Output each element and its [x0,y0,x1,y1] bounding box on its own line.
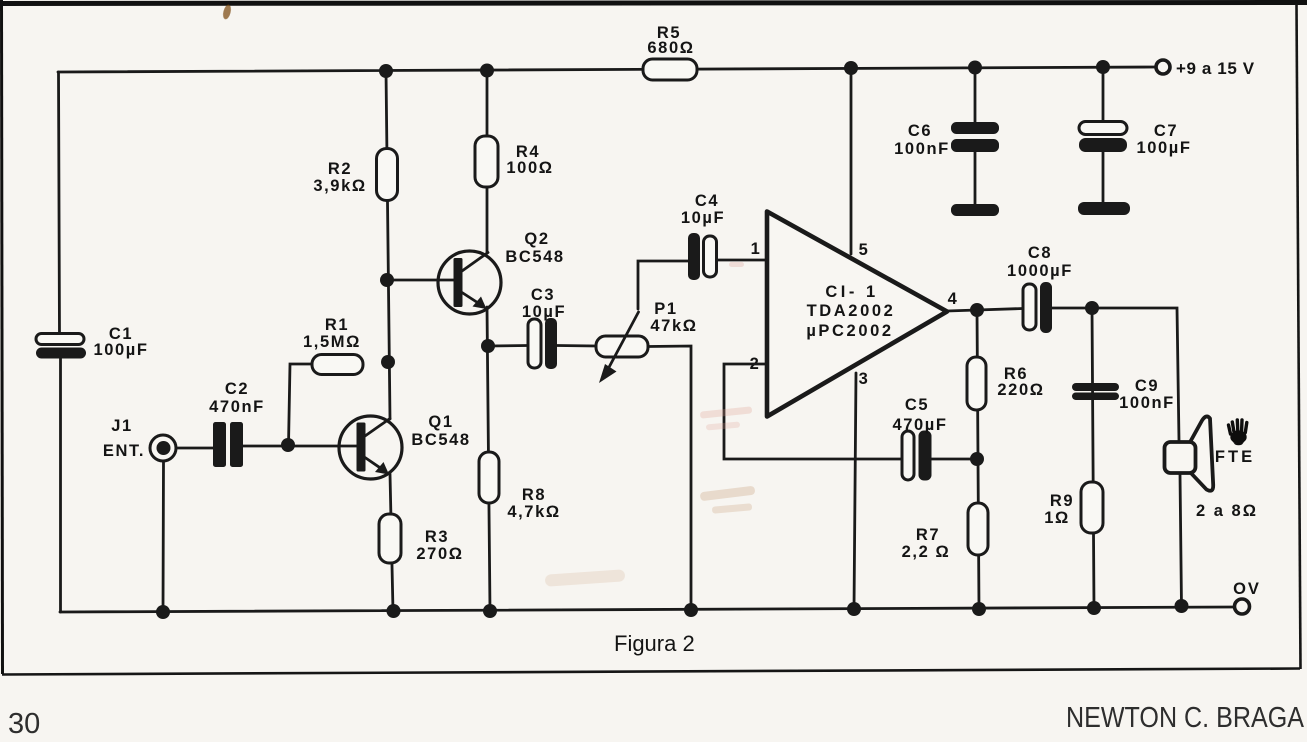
svg-text:30: 30 [8,708,40,740]
resistor R5 [643,24,697,80]
svg-text:ENT.: ENT. [103,442,145,460]
svg-text:C6: C6 [908,122,932,140]
svg-text:680Ω: 680Ω [647,39,694,57]
signature NEWTON C. BRAGA [1066,702,1305,734]
svg-text:C4: C4 [695,192,719,210]
svg-text:100µF: 100µF [1136,139,1191,157]
wire C5 to R6R7 node [932,458,978,461]
svg-text:C9: C9 [1135,377,1159,395]
svg-text:1Ω: 1Ω [1044,509,1070,527]
wire speaker to 0V [1180,474,1182,606]
transistor Q1 BC548 [339,413,471,479]
wire C7 column [1102,67,1105,202]
svg-text:R3: R3 [425,528,449,546]
wire output to speaker [1092,308,1179,441]
wire R4 column [486,71,489,253]
svg-text:3: 3 [859,370,870,388]
wire J1 to C2 [176,447,213,450]
svg-text:CI- 1: CI- 1 [825,283,878,301]
node 0V rail junction at R3 [387,604,401,618]
node 0V rail junction at speaker [1175,599,1189,613]
op-amp CI-1 TDA2002 [767,212,947,417]
capacitor C7 [1079,122,1192,158]
wire pin4 output [947,310,977,311]
node top rail junction at C7 [1096,60,1110,74]
wire C3 link [488,344,528,347]
svg-text:470nF: 470nF [209,398,265,416]
wire bottom 0V rail [60,607,1235,612]
ground bar C6 [951,204,999,216]
svg-text:µPC2002: µPC2002 [806,322,893,340]
svg-text:FTE: FTE [1215,448,1255,466]
svg-text:R1: R1 [325,316,349,334]
svg-text:P1: P1 [654,300,677,318]
wire pin3 to 0V rail [854,373,856,609]
wire Q2 emitter column [487,307,490,611]
resistor R8 [479,452,561,521]
wire C9 R9 column [1092,308,1094,608]
resistor R4 [475,136,554,187]
wire Q2 base [387,279,454,282]
node pin4 junction [970,303,984,317]
pin 2 label [750,355,761,373]
node C3 junction [481,339,495,353]
svg-text:10µF: 10µF [681,209,725,227]
svg-text:+9 a 15 V: +9 a 15 V [1176,59,1255,78]
resistor R9 [1044,482,1103,533]
node Q1 base junction [281,438,295,452]
svg-text:OV: OV [1233,580,1261,598]
capacitor C3 [522,286,566,369]
node 0V rail junction at R7 [972,602,986,616]
wire P1 wiper to C4 [638,261,688,309]
wire R2 column [386,71,390,419]
svg-text:C2: C2 [225,380,249,398]
svg-text:10µF: 10µF [522,303,566,321]
terminal 0V [1233,580,1261,614]
resistor R7 [902,503,988,561]
svg-text:100nF: 100nF [894,140,950,158]
node top rail junction at C6 [968,61,982,75]
node C8/C9 junction [1085,301,1099,315]
wire top +V rail [58,67,1157,72]
resistor R6 [967,357,1045,410]
svg-text:2,2 Ω: 2,2 Ω [902,543,951,561]
svg-text:Q2: Q2 [524,230,549,248]
pin 3 label [859,370,870,388]
svg-text:BC548: BC548 [411,431,470,449]
svg-text:1000µF: 1000µF [1007,262,1073,280]
svg-text:470µF: 470µF [892,416,947,434]
svg-text:5: 5 [859,241,870,259]
pin 1 label [751,240,762,258]
wire Q1 emitter column [390,474,393,611]
svg-text:Figura 2: Figura 2 [614,631,695,656]
svg-text:C3: C3 [531,286,555,304]
node 0V rail junction at P1 [684,603,698,617]
wire C2 to Q1 base [243,445,357,448]
wire C8 to C9 node [1052,307,1092,310]
node 0V rail junction at pin3 [847,602,861,616]
svg-text:2 a 8Ω: 2 a 8Ω [1196,502,1258,520]
node 0V rail junction at R9 [1087,601,1101,615]
potentiometer P1 [596,300,698,383]
svg-text:BC548: BC548 [505,248,564,266]
capacitor C8 [1007,244,1073,333]
svg-text:C5: C5 [905,396,929,414]
resistor R1 [303,316,363,375]
resistor R2 [313,149,397,201]
wire C8 link [977,309,1023,311]
caption Figura 2 [614,631,695,656]
ground bar C7 [1078,202,1130,215]
wire J1 drop to 0V [162,461,165,612]
resistor R3 [379,514,464,563]
transistor Q2 BC548 [438,230,565,314]
capacitor C4 [681,192,725,280]
node 0V rail junction at J1 [156,605,170,619]
svg-text:220Ω: 220Ω [997,381,1044,399]
node top rail junction at pin5 [844,61,858,75]
svg-text:4: 4 [948,290,959,308]
terminal +9 a 15 V [1156,59,1255,78]
speaker FTE [1165,416,1258,520]
wire C3 to P1 [557,344,597,347]
svg-text:J1: J1 [111,417,133,435]
svg-text:1,5MΩ: 1,5MΩ [303,333,361,351]
svg-text:R2: R2 [328,160,352,178]
node top rail junction at R2 [379,64,393,78]
svg-text:R7: R7 [916,526,940,544]
capacitor C9 [1072,377,1175,412]
capacitor C2 [209,380,265,467]
wire P1 right to 0V [648,346,691,610]
svg-text:TDA2002: TDA2002 [807,302,896,320]
svg-text:1: 1 [751,240,762,258]
wire R6 R7 column [977,310,979,609]
wire pin2 feedback [724,364,902,459]
capacitor C1 [36,325,149,359]
wire pin5 to +V rail [850,68,853,254]
node R1 right junction [381,355,395,369]
svg-text:100µF: 100µF [93,341,148,359]
svg-text:C8: C8 [1028,244,1052,262]
svg-text:C7: C7 [1154,122,1178,140]
svg-text:NEWTON C. BRAGA: NEWTON C. BRAGA [1066,702,1305,734]
node C5/R6/R7 junction [970,452,984,466]
node 0V rail junction at R8 [483,604,497,618]
page number 30 [8,708,40,740]
wire R1 left lead [289,364,313,445]
svg-text:R8: R8 [522,486,546,504]
svg-text:100nF: 100nF [1119,394,1175,412]
capacitor C6 [894,122,999,158]
stains [222,4,756,587]
svg-text:R9: R9 [1050,492,1074,510]
node Q2 base junction [380,273,394,287]
hand icon [1229,420,1247,445]
svg-text:270Ω: 270Ω [416,545,463,563]
wire left rail with C1 in series [59,72,61,612]
svg-text:4,7kΩ: 4,7kΩ [507,503,560,521]
svg-text:Q1: Q1 [428,413,453,431]
wire C6 column [974,68,977,205]
svg-text:3,9kΩ: 3,9kΩ [313,177,366,195]
node top rail junction at R4 [480,64,494,78]
pin 4 label [948,290,959,308]
pin 5 label [859,241,870,259]
svg-text:100Ω: 100Ω [506,159,553,177]
wire C4 to pin1 [717,259,768,262]
svg-text:47kΩ: 47kΩ [650,317,697,335]
jack J1 ENT. [103,417,176,461]
capacitor C5 [892,396,947,481]
